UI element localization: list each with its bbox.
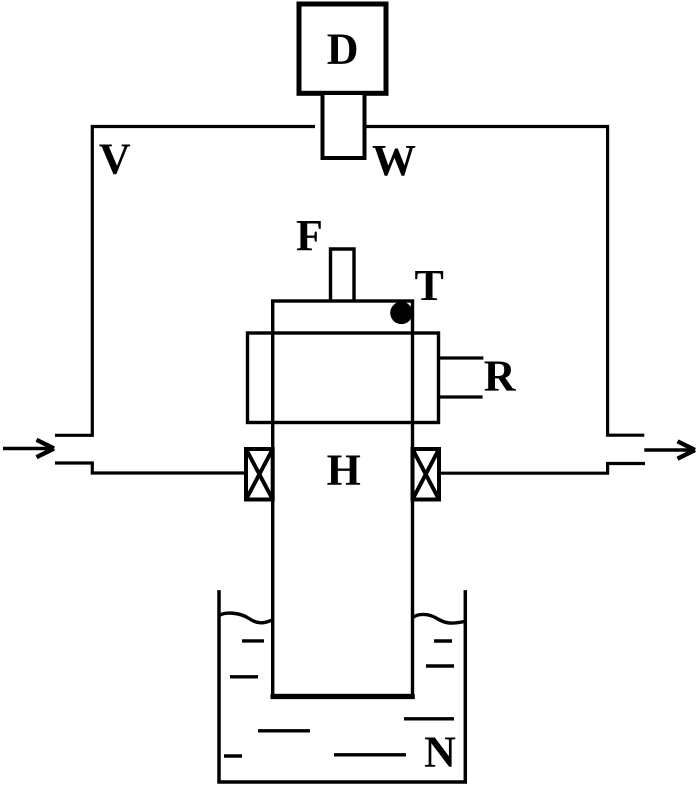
svg-text:V: V	[99, 135, 131, 184]
inlet arrow	[3, 440, 54, 457]
vessel bottom thick line	[271, 694, 415, 699]
right valve (crossed box)	[413, 449, 440, 500]
window/coupling W	[323, 95, 365, 158]
svg-text:D: D	[327, 25, 359, 74]
furnace/jacket outer box	[248, 333, 439, 423]
svg-text:T: T	[415, 261, 444, 310]
liquid dash left lower	[230, 675, 258, 678]
water surface wavy left	[219, 613, 271, 623]
svg-text:R: R	[484, 352, 517, 401]
outlet lower wire from right valve	[440, 464, 645, 474]
svg-text:N: N	[424, 728, 456, 777]
liquid dash bottom 1	[404, 717, 454, 720]
detector box D	[299, 4, 386, 93]
svg-text:F: F	[296, 211, 323, 260]
outlet arrow	[644, 441, 695, 458]
liquid dash left upper	[242, 639, 264, 642]
liquid dash right upper	[434, 639, 452, 642]
leads R upper	[440, 356, 483, 359]
bypass line V right: top run, vertical, stub	[367, 127, 645, 436]
liquid dash bottom 3	[224, 754, 242, 757]
inlet tube F	[331, 249, 355, 301]
inlet lower wire to left valve	[55, 463, 246, 473]
leads R lower	[440, 395, 483, 398]
water surface wavy right	[413, 614, 465, 623]
liquid dash bottom 2	[258, 729, 310, 732]
thermocouple dot T	[390, 302, 412, 324]
liquid dash bottom 4	[334, 753, 406, 756]
bypass line V left: stub, vertical, top run	[55, 127, 315, 436]
cooling bath beaker N	[219, 590, 465, 782]
svg-text:H: H	[327, 446, 361, 495]
reactor vessel H body	[273, 301, 413, 696]
svg-text:W: W	[372, 136, 416, 185]
left valve (crossed box)	[246, 449, 273, 500]
liquid dash right lower	[426, 664, 454, 667]
